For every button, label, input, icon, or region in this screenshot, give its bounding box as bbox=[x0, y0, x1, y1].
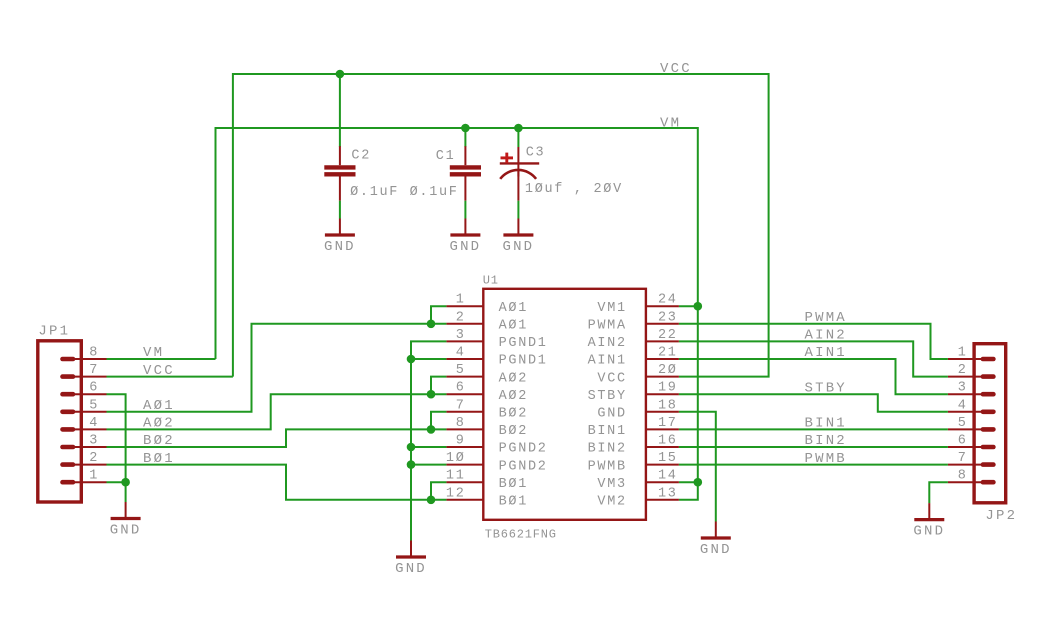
svg-text:STBY: STBY bbox=[588, 389, 627, 404]
svg-text:AØ1: AØ1 bbox=[499, 319, 528, 334]
node VM junction at C1 bbox=[461, 124, 470, 133]
svg-text:6: 6 bbox=[89, 381, 99, 396]
svg-text:GND: GND bbox=[395, 561, 427, 577]
svg-text:AØ1: AØ1 bbox=[499, 301, 528, 316]
ground GND under C1 bbox=[449, 219, 481, 256]
pin 20 U1 VCC bbox=[597, 363, 679, 386]
wire net STBY bbox=[679, 394, 948, 412]
svg-text:GND: GND bbox=[449, 239, 481, 255]
svg-text:1: 1 bbox=[456, 293, 466, 308]
svg-text:2: 2 bbox=[456, 310, 466, 325]
op-amp U1 TB6621FNG box bbox=[483, 289, 646, 520]
pin 8 JP2 bbox=[948, 469, 996, 485]
pin 12 U1 B01 bbox=[446, 486, 528, 509]
pin 8 JP1 bbox=[60, 346, 106, 362]
svg-text:5: 5 bbox=[89, 398, 99, 413]
node junction pin 2 bbox=[427, 320, 436, 329]
svg-text:VM1: VM1 bbox=[597, 301, 626, 316]
svg-text:16: 16 bbox=[658, 434, 678, 449]
svg-text:AIN1: AIN1 bbox=[805, 345, 847, 361]
svg-text:GND: GND bbox=[700, 542, 732, 558]
svg-text:GND: GND bbox=[324, 239, 356, 255]
pin 9 U1 PGND2 bbox=[446, 434, 547, 457]
svg-text:VCC: VCC bbox=[597, 371, 626, 386]
svg-text:8: 8 bbox=[456, 416, 466, 431]
ground GND under C3 bbox=[502, 219, 534, 256]
svg-text:18: 18 bbox=[658, 398, 678, 413]
svg-text:1: 1 bbox=[958, 346, 968, 361]
svg-text:U1: U1 bbox=[483, 274, 499, 288]
wire net A02 bbox=[107, 394, 432, 429]
svg-text:VM3: VM3 bbox=[597, 477, 626, 492]
svg-text:BIN1: BIN1 bbox=[588, 424, 627, 439]
svg-text:6: 6 bbox=[456, 381, 466, 396]
svg-text:24: 24 bbox=[658, 293, 678, 308]
pin 6 U1 A02 bbox=[446, 381, 528, 404]
pin 3 JP2 bbox=[948, 381, 996, 397]
svg-text:PWMA: PWMA bbox=[588, 319, 627, 334]
wire C3 to VM rail bbox=[517, 128, 519, 147]
svg-text:1: 1 bbox=[89, 469, 99, 484]
wire U1 pin 5-6 tie bbox=[431, 377, 446, 395]
svg-text:AØ2: AØ2 bbox=[499, 371, 528, 386]
wire net VCC top rail bbox=[233, 74, 769, 377]
node junction JP1 gnd bbox=[121, 478, 130, 487]
pin 14 U1 VM3 bbox=[597, 469, 679, 492]
node PGND junction pin 4 bbox=[407, 355, 416, 364]
svg-text:9: 9 bbox=[456, 434, 466, 449]
connector JP2 box bbox=[974, 344, 1006, 503]
svg-text:BØ1: BØ1 bbox=[143, 451, 175, 467]
wire PGND stub pin 9 bbox=[411, 446, 446, 448]
capacitor C1 bbox=[450, 146, 481, 201]
wire VM stub to pin 24 bbox=[679, 305, 698, 307]
wire C3 to ground bbox=[517, 201, 519, 219]
node junction pin 6 bbox=[427, 390, 436, 399]
wire net B02 bbox=[107, 429, 432, 447]
svg-text:GND: GND bbox=[110, 523, 142, 539]
pin 1 JP1 bbox=[60, 469, 106, 485]
pin 7 JP1 bbox=[60, 363, 106, 379]
svg-text:BØ2: BØ2 bbox=[143, 433, 175, 449]
svg-text:4: 4 bbox=[456, 346, 466, 361]
svg-text:AIN1: AIN1 bbox=[588, 354, 627, 369]
svg-text:3: 3 bbox=[89, 434, 99, 449]
node VM junction at C3 bbox=[514, 124, 523, 133]
svg-text:BIN2: BIN2 bbox=[588, 442, 627, 457]
node VM junction pin 24 bbox=[694, 302, 703, 311]
pin 3 JP1 bbox=[60, 434, 106, 450]
wire PGND stub pin 4 bbox=[411, 358, 446, 360]
svg-text:BØ2: BØ2 bbox=[499, 424, 528, 439]
svg-text:JP2: JP2 bbox=[985, 508, 1017, 524]
node VCC junction at C2 bbox=[336, 70, 345, 79]
pin 2 JP1 bbox=[60, 451, 106, 467]
pin 15 U1 PWMB bbox=[588, 451, 679, 474]
svg-text:VM2: VM2 bbox=[597, 495, 626, 510]
pin 6 JP1 bbox=[60, 381, 106, 397]
wire net VCC from JP1 pin 7 bbox=[107, 376, 233, 378]
wire net GND JP1 pins 6 and 1 bbox=[107, 394, 126, 502]
capacitor C3 polarized bbox=[500, 147, 539, 201]
svg-text:7: 7 bbox=[456, 398, 466, 413]
pin 23 U1 PWMA bbox=[588, 310, 679, 333]
svg-text:5: 5 bbox=[958, 416, 968, 431]
svg-text:8: 8 bbox=[89, 346, 99, 361]
svg-text:1Ø: 1Ø bbox=[446, 451, 466, 466]
svg-text:Ø.1uF: Ø.1uF bbox=[350, 185, 399, 200]
pin 24 U1 VM1 bbox=[597, 293, 679, 316]
wire net PGND bus bbox=[411, 341, 446, 540]
pin 10 U1 PGND2 bbox=[446, 451, 548, 474]
wire net GND JP2 pin 8 bbox=[929, 482, 948, 503]
svg-text:2Ø: 2Ø bbox=[658, 363, 678, 378]
svg-text:PWMB: PWMB bbox=[588, 459, 627, 474]
pin 6 JP2 bbox=[948, 434, 996, 450]
svg-text:GND: GND bbox=[913, 524, 945, 540]
svg-text:AØ1: AØ1 bbox=[143, 398, 175, 414]
svg-text:VM: VM bbox=[660, 116, 681, 132]
wire net AIN2 bbox=[679, 341, 948, 376]
svg-text:7: 7 bbox=[89, 363, 99, 378]
node junction pin 12 bbox=[427, 496, 436, 505]
svg-text:BIN2: BIN2 bbox=[805, 433, 847, 449]
svg-text:PGND2: PGND2 bbox=[499, 442, 548, 457]
pin 4 JP2 bbox=[948, 398, 996, 414]
ground GND under U1 left bbox=[395, 541, 427, 578]
connector JP1 box bbox=[38, 341, 82, 502]
capacitor C2 bbox=[324, 146, 355, 201]
svg-text:13: 13 bbox=[658, 486, 678, 501]
svg-text:C2: C2 bbox=[351, 149, 371, 164]
svg-text:17: 17 bbox=[658, 416, 678, 431]
node VM junction pin 14 bbox=[694, 478, 703, 487]
svg-text:PWMB: PWMB bbox=[805, 451, 847, 467]
pin 13 U1 VM2 bbox=[597, 486, 679, 509]
wire JP1 pin 1 to gnd bus bbox=[107, 481, 126, 483]
pin 22 U1 AIN2 bbox=[588, 328, 679, 351]
svg-text:15: 15 bbox=[658, 451, 678, 466]
svg-text:BØ1: BØ1 bbox=[499, 495, 528, 510]
svg-text:STBY: STBY bbox=[805, 380, 847, 396]
pin 21 U1 AIN1 bbox=[588, 346, 679, 369]
svg-text:23: 23 bbox=[658, 310, 678, 325]
svg-text:GND: GND bbox=[502, 239, 534, 255]
wire net A01 bbox=[107, 324, 432, 412]
wire net BIN2 bbox=[679, 446, 948, 448]
pin 3 U1 PGND1 bbox=[446, 328, 547, 351]
pin 18 U1 GND bbox=[597, 398, 679, 421]
svg-text:14: 14 bbox=[658, 469, 678, 484]
pin 16 U1 BIN2 bbox=[588, 434, 679, 457]
svg-text:22: 22 bbox=[658, 328, 678, 343]
svg-text:21: 21 bbox=[658, 346, 678, 361]
wire C1 to VM rail bbox=[464, 128, 466, 147]
wire VM stub to pin 14 bbox=[679, 481, 698, 483]
wire U1 pin 11-12 tie bbox=[431, 482, 446, 500]
ground GND under C2 bbox=[324, 219, 356, 256]
ground GND under JP1 bbox=[110, 502, 142, 539]
wire C2 to VCC rail bbox=[339, 74, 341, 147]
pin 5 U1 A02 bbox=[446, 363, 528, 386]
svg-text:VM: VM bbox=[143, 345, 164, 361]
pin 17 U1 BIN1 bbox=[588, 416, 679, 439]
wire net GND pin 18 bbox=[679, 412, 716, 522]
svg-text:4: 4 bbox=[89, 416, 99, 431]
svg-text:AIN2: AIN2 bbox=[805, 328, 847, 344]
wire U1 pin 1-2 tie bbox=[431, 306, 446, 324]
svg-text:PGND2: PGND2 bbox=[499, 459, 548, 474]
svg-text:VCC: VCC bbox=[660, 61, 692, 77]
pin 1 JP2 bbox=[948, 346, 996, 362]
pin 11 U1 B01 bbox=[446, 469, 528, 492]
pin 8 U1 B02 bbox=[446, 416, 528, 439]
node junction pin 8 bbox=[427, 425, 436, 434]
pin 2 JP2 bbox=[948, 363, 996, 379]
svg-text:7: 7 bbox=[958, 451, 968, 466]
svg-text:TB6621FNG: TB6621FNG bbox=[485, 528, 557, 542]
wire U1 pin 7-8 tie bbox=[431, 412, 446, 430]
svg-text:3: 3 bbox=[456, 328, 466, 343]
ground GND under U1 right bbox=[700, 522, 732, 559]
svg-text:BØ2: BØ2 bbox=[499, 407, 528, 422]
node PGND junction pin 10 bbox=[407, 460, 416, 469]
pin 7 JP2 bbox=[948, 451, 996, 467]
svg-text:AØ2: AØ2 bbox=[499, 389, 528, 404]
wire net B01 bbox=[107, 465, 432, 500]
svg-text:19: 19 bbox=[658, 381, 678, 396]
svg-text:AØ2: AØ2 bbox=[143, 416, 175, 432]
wire C2 to ground bbox=[339, 201, 341, 219]
pin 5 JP1 bbox=[60, 398, 106, 414]
svg-text:4: 4 bbox=[958, 398, 968, 413]
svg-text:2: 2 bbox=[958, 363, 968, 378]
wire net PWMA bbox=[679, 324, 948, 359]
svg-text:BIN1: BIN1 bbox=[805, 416, 847, 432]
svg-text:5: 5 bbox=[456, 363, 466, 378]
wire net PWMB bbox=[679, 464, 948, 466]
wire PGND stub pin 10 bbox=[411, 464, 446, 466]
pin 19 U1 STBY bbox=[588, 381, 679, 404]
svg-text:6: 6 bbox=[958, 434, 968, 449]
svg-text:1Øuf , 2ØV: 1Øuf , 2ØV bbox=[525, 182, 623, 197]
pin 5 JP2 bbox=[948, 416, 996, 432]
ground GND under JP2 bbox=[913, 503, 945, 539]
svg-text:PWMA: PWMA bbox=[805, 310, 847, 326]
wire net VM top rail bbox=[216, 128, 698, 500]
pin 2 U1 A01 bbox=[446, 310, 528, 333]
svg-text:VCC: VCC bbox=[143, 363, 175, 379]
wire C1 to ground bbox=[464, 201, 466, 219]
svg-text:Ø.1uF: Ø.1uF bbox=[410, 185, 459, 200]
svg-text:8: 8 bbox=[958, 469, 968, 484]
svg-text:PGND1: PGND1 bbox=[499, 354, 548, 369]
svg-text:12: 12 bbox=[446, 486, 466, 501]
svg-text:PGND1: PGND1 bbox=[499, 336, 548, 351]
pin 1 U1 A01 bbox=[446, 293, 528, 316]
svg-text:C3: C3 bbox=[526, 146, 546, 161]
wire net BIN1 bbox=[679, 428, 948, 430]
svg-text:C1: C1 bbox=[436, 149, 456, 164]
svg-text:2: 2 bbox=[89, 451, 99, 466]
svg-text:JP1: JP1 bbox=[38, 324, 70, 340]
svg-text:AIN2: AIN2 bbox=[588, 336, 627, 351]
wire net AIN1 bbox=[679, 359, 948, 394]
svg-text:BØ1: BØ1 bbox=[499, 477, 528, 492]
pin 7 U1 B02 bbox=[446, 398, 528, 421]
pin 4 JP1 bbox=[60, 416, 106, 432]
node PGND junction pin 9 bbox=[407, 443, 416, 452]
wire net VM from JP1 pin 8 bbox=[107, 358, 216, 360]
svg-text:3: 3 bbox=[958, 381, 968, 396]
svg-text:11: 11 bbox=[446, 469, 466, 484]
pin 4 U1 PGND1 bbox=[446, 346, 547, 369]
svg-text:GND: GND bbox=[597, 407, 626, 422]
